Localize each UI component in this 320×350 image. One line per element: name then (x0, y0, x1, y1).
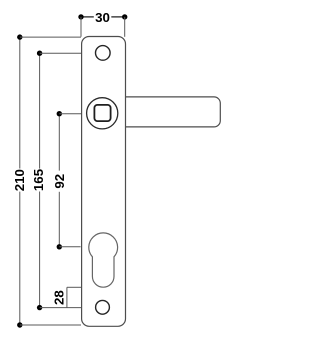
euro cylinder keyhole (89, 233, 118, 287)
dimension 210 bottom reference line (20, 324, 81, 326)
dimension 30 right dot (122, 14, 127, 19)
top screw hole (96, 46, 111, 61)
spindle square hole (94, 105, 110, 121)
dimension 210 bottom dot (17, 322, 22, 327)
dimension 30 extension line right (124, 17, 126, 37)
dimension 92 top dot (57, 111, 62, 116)
spindle bearing circle (87, 98, 118, 129)
dimension 92 top reference line (59, 113, 81, 115)
dimension 165 vertical line lower segment (39, 192, 41, 308)
svg-text:210: 210 (12, 169, 27, 191)
svg-text:165: 165 (31, 168, 46, 191)
bottom screw hole (96, 300, 110, 314)
svg-text:30: 30 (95, 10, 110, 25)
backplate (82, 37, 126, 327)
svg-text:28: 28 (52, 290, 67, 305)
dimension 30 line left segment (81, 16, 94, 18)
dimension 165 bottom dot (37, 305, 42, 310)
dimension 92 bottom reference line (59, 246, 80, 248)
dimension 165 bottom reference line (40, 307, 81, 309)
dimension 210 top reference line (20, 36, 81, 38)
dimension 92 bottom dot (57, 244, 62, 249)
dimension 30 extension line left (80, 17, 82, 37)
dimension 28 top reference line (67, 286, 81, 288)
handle lever (126, 97, 221, 127)
dimension 92 vertical line lower segment (58, 192, 60, 247)
dimension 92 vertical line upper segment (58, 114, 60, 171)
dimension 165 top reference line (40, 52, 81, 54)
dimension 165 vertical line upper segment (39, 53, 41, 168)
svg-text:92: 92 (52, 174, 67, 189)
dimension 210 vertical line lower segment (19, 192, 21, 325)
dimension 165 top dot (37, 51, 42, 56)
dimension 28 vertical line (66, 287, 68, 307)
dimension 30 line right segment (111, 16, 124, 18)
dimension 30 left dot (78, 14, 83, 19)
dimension 210 vertical line upper segment (19, 37, 21, 168)
dimension 210 top dot (17, 34, 22, 39)
